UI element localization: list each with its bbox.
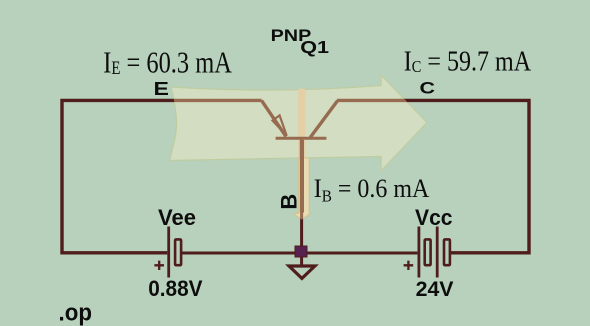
svg-text:24V: 24V bbox=[416, 277, 455, 301]
svg-text:Vcc: Vcc bbox=[415, 204, 453, 230]
svg-text:IC = 59.7 mA: IC = 59.7 mA bbox=[404, 46, 531, 77]
svg-text:E: E bbox=[154, 79, 169, 99]
svg-text:IE = 60.3 mA: IE = 60.3 mA bbox=[103, 45, 232, 79]
svg-text:IB = 0.6 mA: IB = 0.6 mA bbox=[314, 175, 430, 205]
svg-text:0.88V: 0.88V bbox=[148, 276, 203, 301]
svg-text:B: B bbox=[276, 194, 301, 210]
svg-text:Vee: Vee bbox=[158, 205, 196, 230]
svg-text:Q1: Q1 bbox=[300, 38, 329, 58]
svg-text:C: C bbox=[420, 80, 436, 98]
svg-text:.op: .op bbox=[59, 299, 92, 326]
